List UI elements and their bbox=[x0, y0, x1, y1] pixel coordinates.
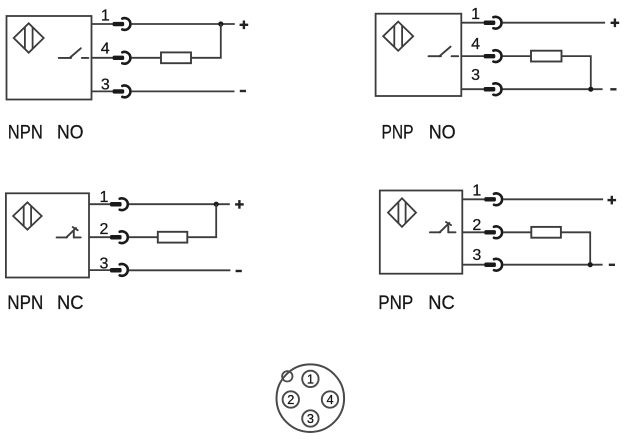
wire pin2 box to plug bbox=[462, 231, 484, 233]
wire pin3 box to plug bbox=[89, 269, 110, 271]
junction dot (pin3/load) bbox=[588, 262, 593, 267]
svg-text:3: 3 bbox=[472, 247, 481, 264]
plug pin 2 bbox=[110, 231, 128, 243]
wire load to junction bbox=[187, 204, 216, 237]
svg-text:2: 2 bbox=[287, 392, 294, 407]
junction dot (pin1/load) bbox=[214, 202, 219, 207]
caption NPN NO bbox=[8, 123, 84, 144]
wire load to junction bbox=[191, 24, 221, 58]
wire pin2 to load bbox=[503, 231, 531, 233]
junction dot (pin3/load) bbox=[588, 87, 593, 92]
svg-text:1: 1 bbox=[472, 182, 481, 199]
sensor symbol (diamond with band) bbox=[14, 23, 44, 52]
sensor box (NPN NO) bbox=[7, 16, 92, 100]
minus terminal bbox=[236, 270, 242, 272]
sensor symbol (diamond with band) bbox=[13, 202, 42, 229]
svg-text:NPN: NPN bbox=[7, 293, 43, 314]
connector body circle bbox=[277, 364, 345, 432]
wire pin1 box to plug bbox=[89, 203, 110, 205]
wire pin3 box to plug bbox=[462, 264, 484, 266]
plus terminal bbox=[235, 200, 244, 209]
sensor box (PNP NC) bbox=[380, 191, 463, 274]
plug pin 1 bbox=[110, 198, 128, 210]
svg-text:2: 2 bbox=[472, 217, 481, 234]
svg-text:2: 2 bbox=[100, 221, 109, 238]
switch contact NO (inside box) bbox=[429, 47, 459, 57]
minus terminal bbox=[610, 88, 616, 90]
caption PNP NO bbox=[382, 123, 456, 144]
connector pin 1 bbox=[302, 371, 318, 387]
plug pin 2 bbox=[484, 226, 502, 238]
wire pin3 box to plug bbox=[461, 88, 484, 90]
svg-text:PNP: PNP bbox=[378, 293, 413, 314]
svg-text:PNP: PNP bbox=[382, 123, 414, 144]
wire pin1 to plus bbox=[503, 22, 606, 24]
load resistor RL (NPN NO) bbox=[161, 52, 191, 63]
svg-text:3: 3 bbox=[307, 411, 314, 426]
plus terminal bbox=[611, 19, 620, 28]
connector pin 2 bbox=[283, 391, 299, 407]
junction dot (pin1/load) bbox=[218, 21, 223, 26]
plug pin 1 bbox=[484, 17, 502, 29]
svg-text:4: 4 bbox=[471, 36, 480, 53]
keyway notch bbox=[282, 371, 292, 381]
svg-text:3: 3 bbox=[471, 67, 480, 84]
plug pin 4 bbox=[484, 50, 502, 62]
wire pin4 box to plug bbox=[461, 55, 484, 57]
svg-text:4: 4 bbox=[326, 392, 333, 407]
wire pin2 to load bbox=[129, 236, 158, 238]
svg-text:4: 4 bbox=[101, 40, 110, 57]
wire pin1 box to plug bbox=[461, 22, 484, 24]
plus terminal bbox=[608, 196, 617, 205]
wire pin2 box to plug bbox=[89, 236, 110, 238]
wire load to junction bbox=[562, 56, 591, 89]
wire pin3 to minus bbox=[131, 90, 234, 92]
wire pin1 to plus bbox=[503, 198, 603, 200]
plug pin 3 bbox=[113, 86, 131, 98]
plug pin 3 bbox=[110, 264, 128, 276]
svg-text:1: 1 bbox=[100, 189, 109, 206]
svg-text:1: 1 bbox=[307, 372, 314, 387]
svg-text:NPN: NPN bbox=[8, 123, 43, 144]
sensor symbol (diamond with band) bbox=[383, 22, 413, 51]
wire pin3 to minus bbox=[503, 264, 602, 266]
svg-text:NO: NO bbox=[429, 123, 456, 144]
load resistor RL (PNP NC) bbox=[531, 227, 561, 238]
plus terminal bbox=[240, 21, 249, 30]
minus terminal bbox=[609, 264, 615, 266]
wire pin3 to minus bbox=[503, 88, 603, 90]
load resistor RL (PNP NO) bbox=[531, 51, 562, 62]
sensor box (NPN NC) bbox=[6, 193, 89, 277]
plug pin 1 bbox=[113, 18, 131, 30]
plug pin 3 bbox=[484, 83, 502, 95]
connector pin 3 bbox=[302, 410, 318, 426]
wire pin1 box to plug bbox=[462, 198, 484, 200]
wire load to junction bbox=[561, 232, 590, 264]
wire pin4 to load bbox=[131, 57, 161, 59]
plug pin 4 bbox=[113, 52, 131, 64]
switch contact NO (inside box) bbox=[59, 48, 89, 58]
sensor box (PNP NO) bbox=[376, 14, 462, 96]
svg-text:NC: NC bbox=[57, 293, 84, 314]
svg-text:3: 3 bbox=[100, 255, 109, 272]
load resistor RL (NPN NC) bbox=[158, 232, 188, 243]
wire pin4 to load bbox=[503, 55, 532, 57]
wire pin1 box to plug bbox=[92, 23, 114, 25]
wire pin3 box to plug bbox=[92, 90, 114, 92]
svg-text:1: 1 bbox=[471, 6, 480, 23]
plug pin 3 bbox=[484, 259, 502, 271]
svg-text:1: 1 bbox=[101, 8, 110, 25]
wire pin4 box to plug bbox=[92, 57, 114, 59]
svg-text:NO: NO bbox=[57, 123, 84, 144]
connector pin 4 bbox=[322, 391, 338, 407]
sensor symbol (diamond with band) bbox=[388, 198, 416, 227]
plug pin 1 bbox=[484, 193, 502, 205]
wire pin1 to plus bbox=[131, 23, 234, 25]
svg-text:3: 3 bbox=[101, 77, 110, 94]
caption NPN NC bbox=[7, 293, 83, 314]
svg-text:NC: NC bbox=[428, 293, 455, 314]
minus terminal bbox=[240, 90, 246, 92]
caption PNP NC bbox=[378, 293, 455, 314]
wire pin1 to plus bbox=[129, 203, 230, 205]
switch contact NC (inside box) bbox=[430, 222, 456, 232]
wire pin3 to minus bbox=[129, 269, 231, 271]
switch contact NC (inside box) bbox=[57, 227, 81, 237]
